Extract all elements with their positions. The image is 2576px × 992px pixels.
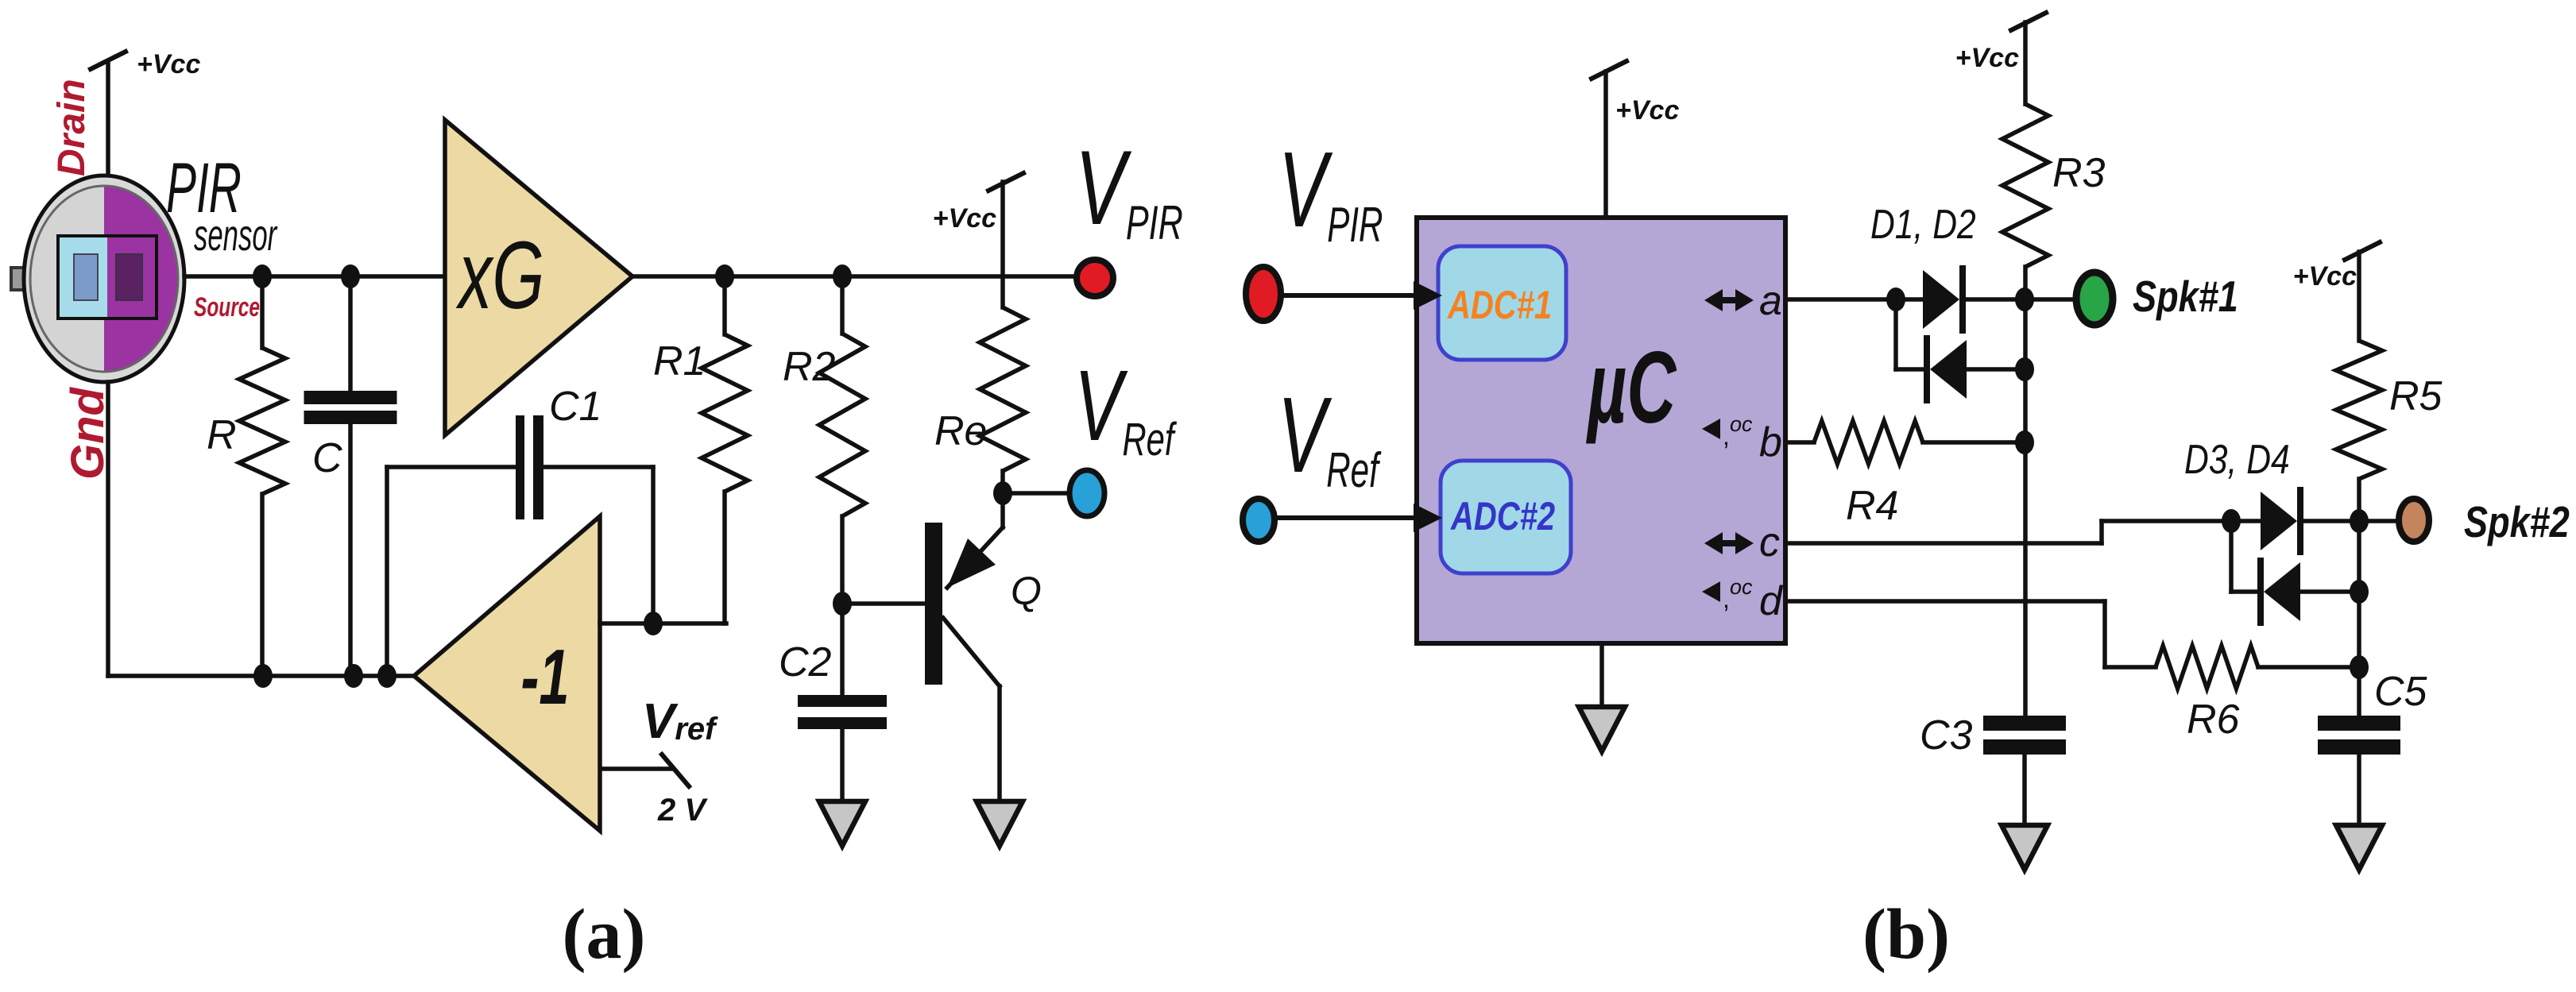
svg-text:C5: C5: [2374, 669, 2428, 715]
svg-text:a: a: [1759, 278, 1782, 324]
svg-text:b: b: [1759, 419, 1782, 465]
svg-text:oc: oc: [1730, 412, 1753, 436]
svg-text:+Vcc: +Vcc: [137, 49, 200, 79]
svg-text:+Vcc: +Vcc: [1615, 95, 1679, 125]
svg-text:,: ,: [1723, 422, 1730, 450]
svg-text:d: d: [1759, 578, 1784, 624]
svg-text:+Vcc: +Vcc: [1955, 43, 2019, 73]
svg-text:(a): (a): [563, 895, 646, 974]
svg-text:xG: xG: [455, 222, 544, 330]
svg-text:D3, D4: D3, D4: [2184, 437, 2290, 483]
svg-text:sensor: sensor: [194, 210, 278, 261]
svg-text:R1: R1: [653, 338, 706, 384]
svg-text:Re: Re: [934, 408, 987, 454]
svg-text:Spk#2: Spk#2: [2464, 497, 2570, 546]
svg-text:C1: C1: [549, 384, 601, 430]
svg-text:+Vcc: +Vcc: [2293, 261, 2357, 291]
svg-text:C: C: [312, 435, 342, 481]
svg-text:Q: Q: [1011, 569, 1042, 613]
svg-text:c: c: [1759, 519, 1780, 565]
svg-text:2 V: 2 V: [657, 793, 708, 828]
svg-text:R: R: [207, 412, 237, 458]
svg-text:,: ,: [1723, 585, 1730, 613]
svg-text:oc: oc: [1730, 575, 1753, 599]
svg-text:R3: R3: [2052, 150, 2106, 196]
svg-text:C2: C2: [779, 639, 832, 685]
svg-text:Spk#1: Spk#1: [2133, 272, 2238, 321]
svg-text:R2: R2: [783, 344, 836, 390]
svg-text:ADC#2: ADC#2: [1450, 494, 1555, 538]
svg-text:R5: R5: [2389, 373, 2443, 419]
svg-text:+Vcc: +Vcc: [933, 203, 996, 234]
svg-text:R6: R6: [2187, 697, 2240, 743]
svg-text:ADC#1: ADC#1: [1447, 283, 1552, 327]
svg-text:µC: µC: [1586, 331, 1677, 445]
svg-text:Source: Source: [194, 292, 260, 322]
svg-text:-1: -1: [520, 633, 569, 720]
svg-text:(b): (b): [1862, 895, 1950, 974]
svg-text:Drain: Drain: [51, 79, 93, 176]
svg-text:D1, D2: D1, D2: [1870, 202, 1976, 248]
svg-text:C3: C3: [1920, 712, 1973, 758]
svg-text:R4: R4: [1846, 483, 1898, 529]
